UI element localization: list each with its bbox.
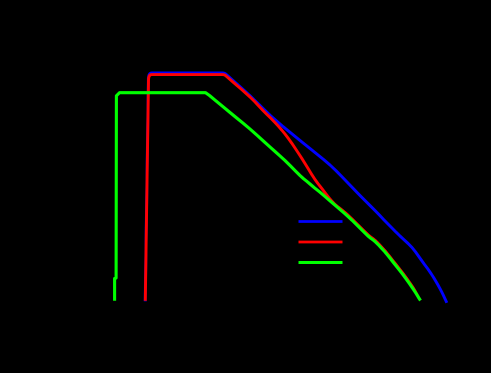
green curve	[115, 93, 421, 301]
blue curve	[145, 73, 447, 303]
legend blue sample	[299, 220, 343, 223]
legend red sample	[299, 241, 343, 244]
legend green sample	[299, 261, 343, 264]
red curve	[145, 75, 419, 301]
